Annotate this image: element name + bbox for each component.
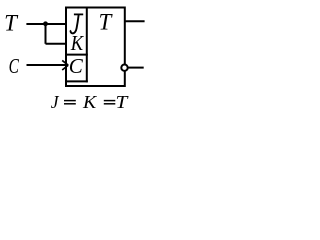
svg-text:C: C xyxy=(69,54,84,78)
svg-text:T: T xyxy=(116,92,129,112)
svg-text:J: J xyxy=(51,92,60,112)
svg-text:T: T xyxy=(4,11,19,36)
svg-text:T: T xyxy=(99,9,114,34)
svg-text:K: K xyxy=(82,92,98,112)
svg-text:K: K xyxy=(70,31,84,55)
svg-text:C: C xyxy=(9,54,20,78)
